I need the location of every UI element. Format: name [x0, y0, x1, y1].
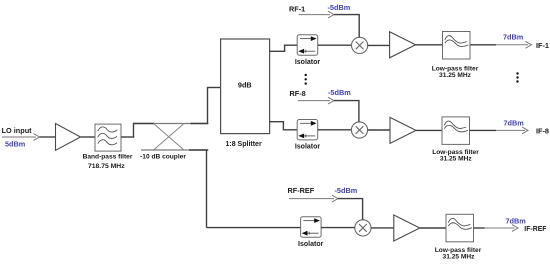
- svg-text:31.25 MHz: 31.25 MHz: [440, 156, 473, 163]
- svg-text:IF-REF: IF-REF: [524, 226, 546, 233]
- svg-text:RF-1: RF-1: [289, 4, 305, 13]
- svg-text:RF-REF: RF-REF: [288, 186, 315, 195]
- svg-text:5dBm: 5dBm: [5, 139, 26, 148]
- svg-text:IF-1: IF-1: [536, 41, 549, 50]
- svg-text:Isolator: Isolator: [295, 144, 321, 151]
- svg-text:-10 dB coupler: -10 dB coupler: [140, 154, 186, 161]
- svg-text:7dBm: 7dBm: [504, 118, 525, 127]
- svg-text:7dBm: 7dBm: [506, 216, 527, 225]
- svg-text:Band-pass filter: Band-pass filter: [83, 154, 133, 161]
- svg-text:-5dBm: -5dBm: [328, 3, 351, 12]
- svg-text:7dBm: 7dBm: [503, 32, 524, 41]
- svg-text:-5dBm: -5dBm: [335, 186, 358, 195]
- svg-text:RF-8: RF-8: [290, 89, 306, 98]
- svg-text:LO input: LO input: [2, 126, 33, 135]
- svg-text:-5dBm: -5dBm: [328, 88, 351, 97]
- svg-text:718.75 MHz: 718.75 MHz: [88, 163, 125, 170]
- svg-text:1:8 Splitter: 1:8 Splitter: [226, 141, 262, 148]
- svg-text:31.25 MHz: 31.25 MHz: [439, 72, 472, 79]
- svg-text:31.25 MHz: 31.25 MHz: [443, 254, 476, 261]
- svg-text:Isolator: Isolator: [298, 241, 324, 248]
- svg-text:IF-8: IF-8: [536, 126, 549, 135]
- svg-text:9dB: 9dB: [238, 81, 252, 90]
- svg-text:Isolator: Isolator: [295, 59, 321, 66]
